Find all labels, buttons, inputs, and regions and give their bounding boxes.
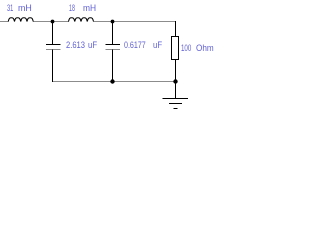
junction dot node B (L2/C2/R) [111,20,115,24]
junction dot bottom C2 [110,79,114,83]
capacitor C1 bottom plate [46,49,61,51]
wire resistor top lead [175,21,177,36]
junction dot bottom resistor/ground [173,79,177,83]
label R1 value 100 Ohm [181,43,191,52]
capacitor C2 bottom plate [105,49,120,51]
junction dot node A (L1/L2/C1) [51,20,55,24]
ground bar 2 [169,103,182,105]
ground bar 3 [173,108,177,110]
wire between L1 and L2 [33,21,69,23]
capacitor C1 top lead [52,22,54,45]
ground bar 1 [163,98,189,100]
capacitor C1 top plate [46,44,61,46]
label L1 value 31 mH [7,3,13,12]
wire top rail left stub [0,21,9,23]
resistor R1 body [172,37,179,60]
capacitor C2 top lead [112,22,114,45]
wire resistor bottom lead [175,60,177,83]
inductor L2 18 mH [69,18,94,22]
wire bottom rail [53,81,176,83]
label L2 value 18 mH [69,3,75,12]
capacitor C1 bottom lead [52,50,54,83]
wire ground lead [175,82,177,99]
capacitor C2 bottom lead [112,50,114,83]
label C2 value 0.6177 uF [124,40,146,49]
capacitor C2 top plate [105,44,120,46]
wire between L2 and resistor corner [94,21,177,23]
inductor L1 31 mH [8,18,33,22]
label C1 value 2.613 uF [66,40,85,49]
